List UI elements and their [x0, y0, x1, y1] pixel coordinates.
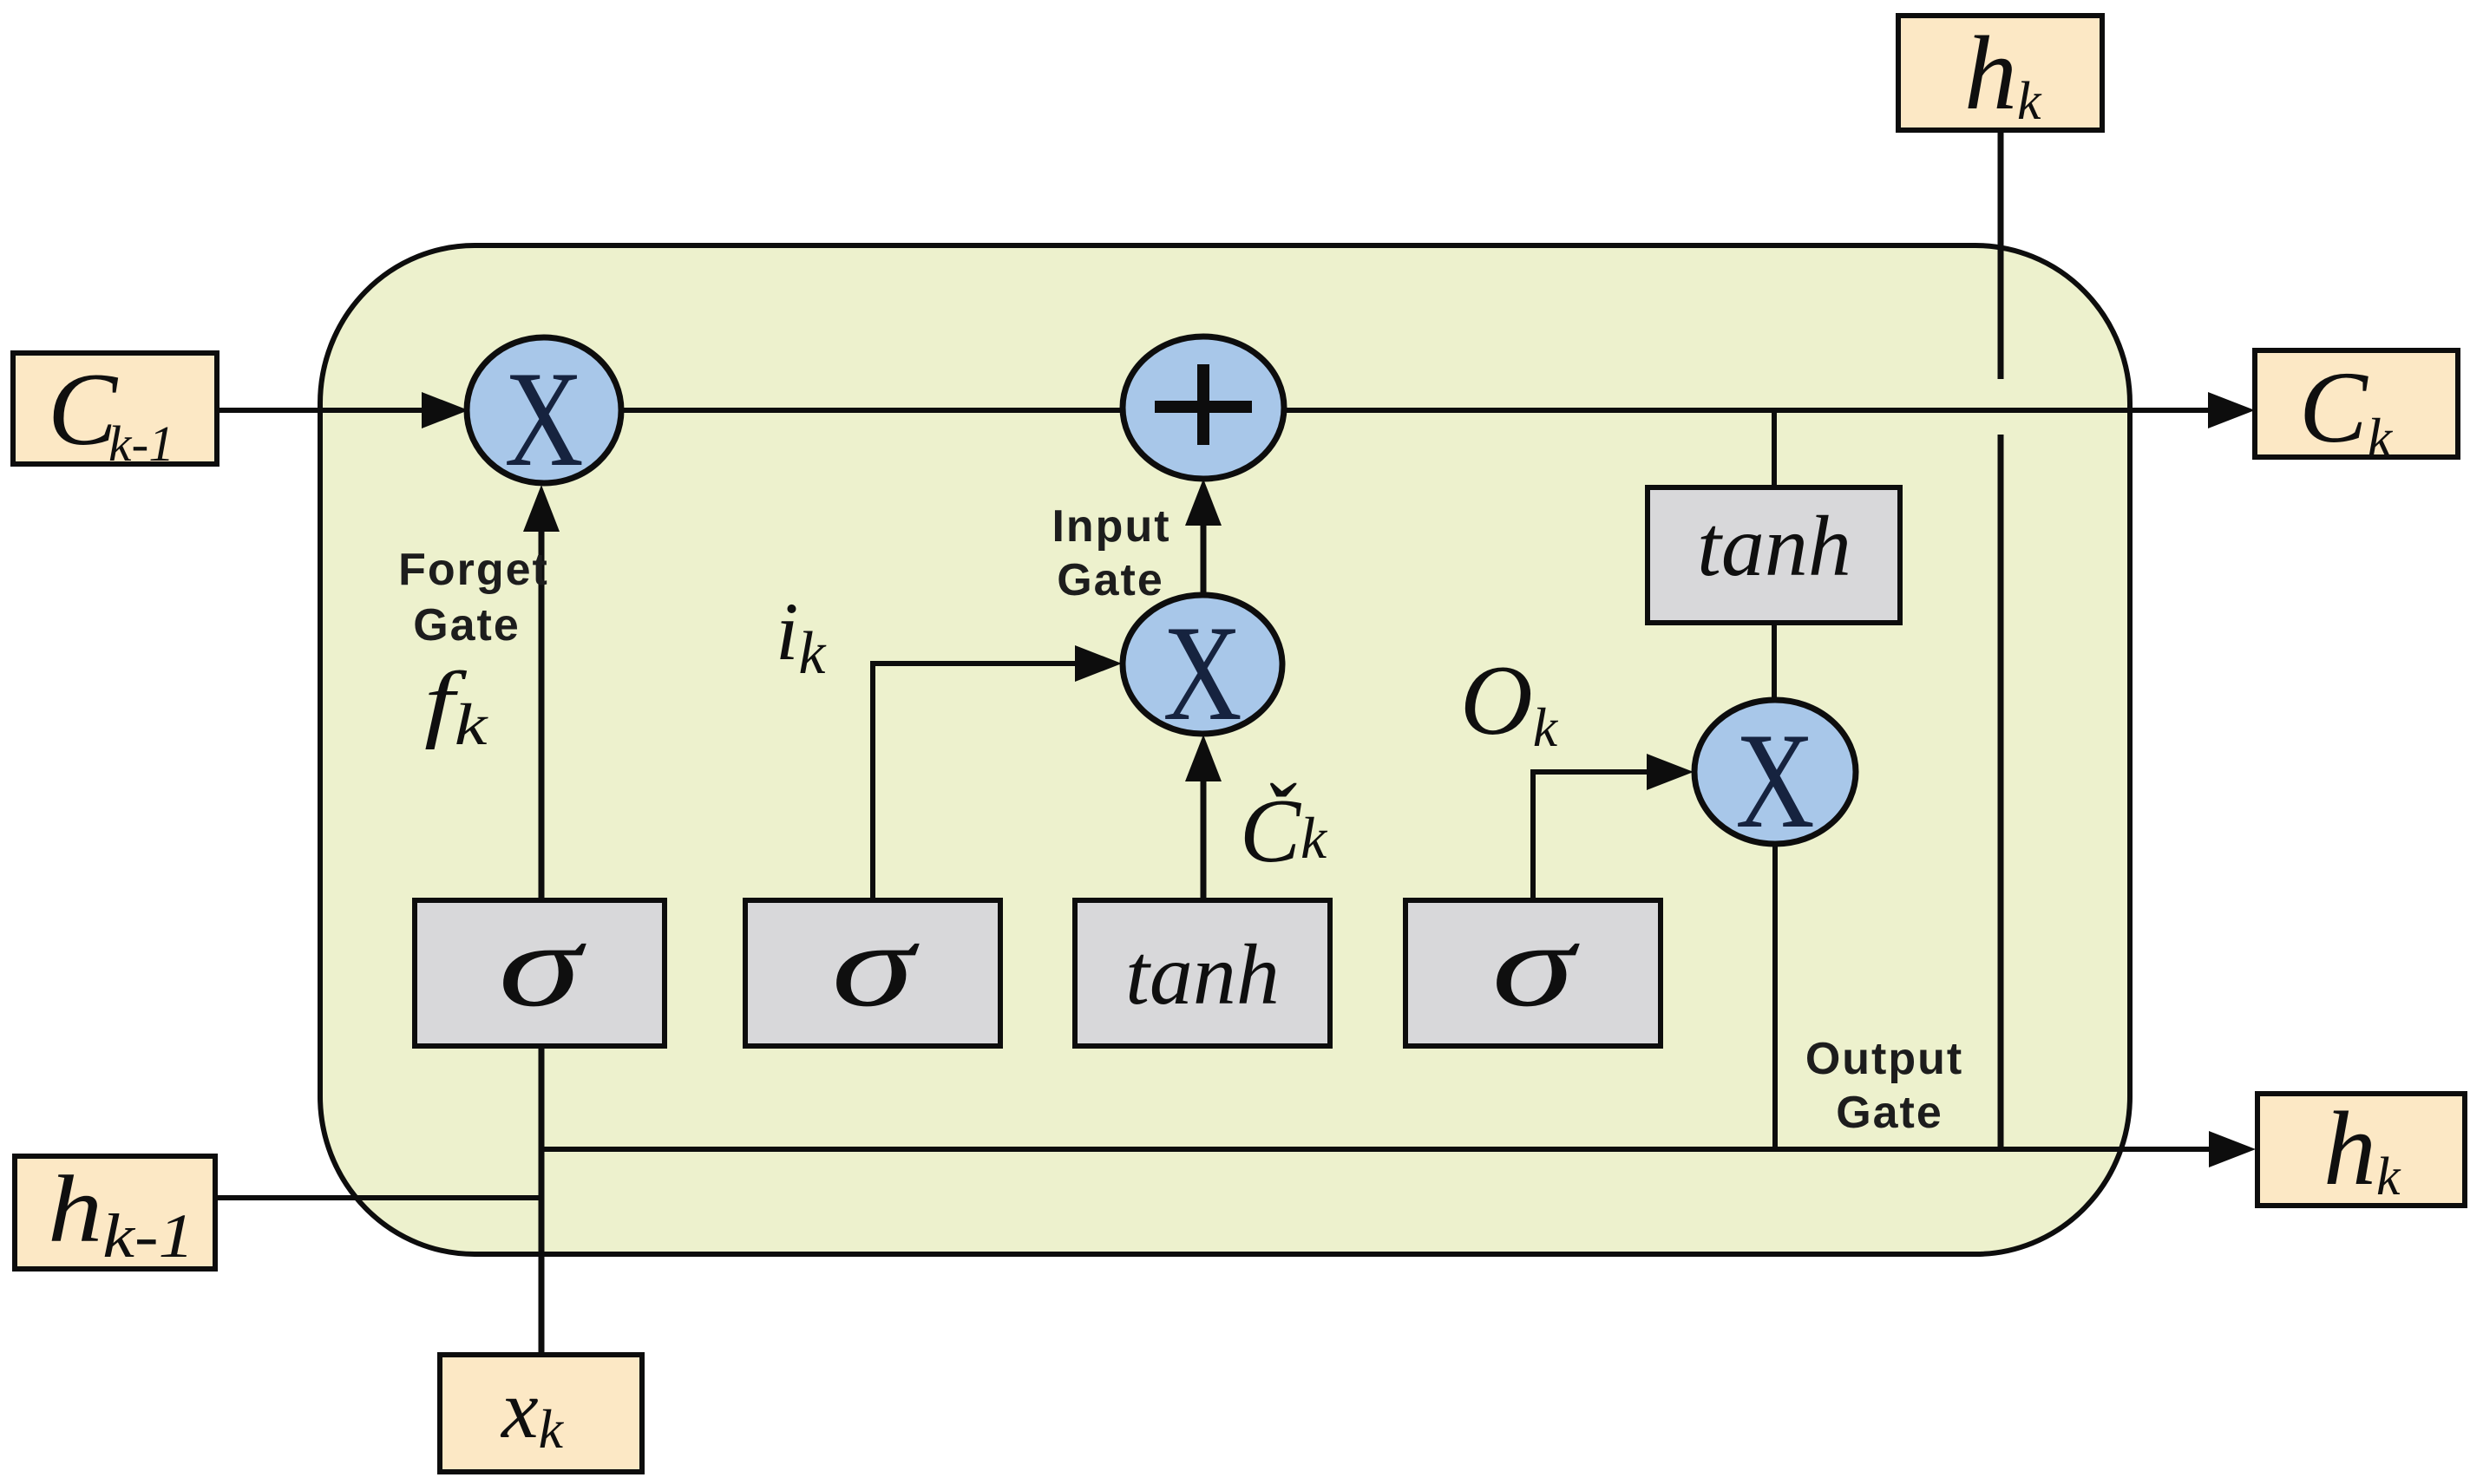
- svg-text:Forget: Forget: [398, 545, 549, 595]
- sigma glyph forget: [498, 899, 586, 1032]
- svg-text:tanh: tanh: [1697, 498, 1851, 594]
- sigma box forget gate: [415, 900, 665, 1046]
- wire h_k top riser lower segment: [1998, 435, 2004, 1149]
- svg-text:Input: Input: [1052, 501, 1170, 552]
- svg-text:Output: Output: [1805, 1034, 1963, 1084]
- sigma glyph output: [1491, 899, 1580, 1032]
- wire input X up into plus: [1201, 513, 1207, 595]
- wire tanh (right) down to output X: [1772, 623, 1777, 701]
- svg-text:X: X: [1735, 705, 1814, 856]
- svg-text:σ: σ: [1491, 899, 1580, 1032]
- tanh box candidate: [1075, 900, 1330, 1046]
- box h_k bottom: [2257, 1094, 2465, 1206]
- node input X circle: [1123, 595, 1282, 734]
- wire plus to C_k with arrowhead: [1282, 408, 2212, 413]
- sigma box output gate: [1405, 900, 1661, 1046]
- X glyph input: [1163, 598, 1242, 749]
- box C_{k-1}: [13, 353, 217, 464]
- node plus circle: [1123, 337, 1284, 479]
- svg-text:Gate: Gate: [1057, 555, 1164, 605]
- plus glyph: [1155, 364, 1252, 445]
- svg-text:tanh: tanh: [1125, 926, 1280, 1023]
- wire i_k elbow into input X: [873, 664, 1080, 900]
- wire x_k riser: [539, 1041, 545, 1355]
- wire h line to h_k output box: [541, 1147, 2212, 1152]
- X glyph output: [1735, 705, 1814, 856]
- svg-text:σ: σ: [498, 899, 586, 1032]
- wire tanh (candidate) riser into input X: [1201, 768, 1207, 900]
- box h_k top: [1898, 16, 2102, 130]
- tanh box cell output: [1648, 487, 1900, 623]
- svg-text:Gate: Gate: [413, 600, 521, 650]
- sigma box input gate: [745, 900, 1000, 1046]
- X glyph forget: [504, 343, 583, 494]
- box C_k: [2255, 350, 2458, 457]
- wire C line down to tanh (right): [1772, 410, 1777, 487]
- wire C_{k-1} to forget X: [217, 408, 427, 413]
- box x_k: [440, 1355, 642, 1472]
- label f_k: [424, 655, 488, 757]
- wire forget X to plus: [619, 408, 1124, 413]
- svg-text:Gate: Gate: [1836, 1088, 1943, 1138]
- svg-text:X: X: [504, 343, 583, 494]
- wire h_{k-1} into x_k riser: [215, 1195, 541, 1200]
- LSTM cell body: [320, 245, 2130, 1254]
- node forget X circle: [467, 337, 621, 483]
- box h_{k-1}: [15, 1156, 215, 1269]
- svg-text:X: X: [1163, 598, 1242, 749]
- wire O_k elbow into output X: [1533, 772, 1652, 900]
- wire f_k riser into forget X: [539, 520, 545, 900]
- sigma glyph input: [831, 899, 920, 1032]
- wire output X down to h line: [1772, 844, 1778, 1149]
- node output X circle: [1694, 700, 1856, 844]
- svg-text:σ: σ: [831, 899, 920, 1032]
- wire h_k top riser upper segment: [1998, 130, 2004, 379]
